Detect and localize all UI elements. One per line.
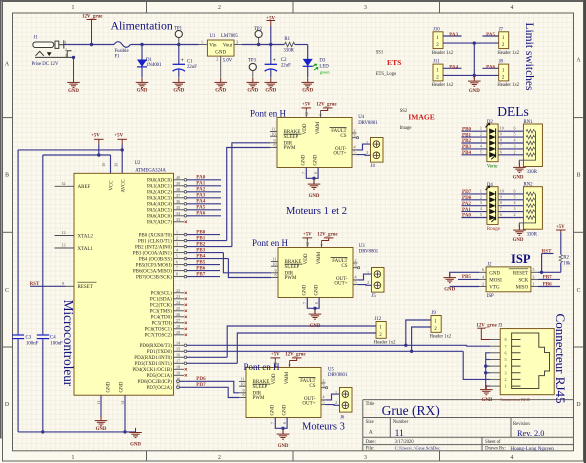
svg-text:5: 5 [532,267,534,272]
svg-text:7: 7 [504,344,506,349]
svg-text:5: 5 [176,254,178,259]
svg-text:11: 11 [395,429,404,439]
svg-text:27: 27 [176,318,180,323]
svg-text:11: 11 [96,401,101,405]
svg-text:26: 26 [176,312,180,317]
svg-text:PB0 (XCK0/T0): PB0 (XCK0/T0) [139,233,173,238]
svg-text:PA4: PA4 [449,65,458,71]
svg-text:GND: GND [130,443,141,448]
svg-text:GND: GND [106,381,111,392]
svg-text:Header 1x2: Header 1x2 [497,51,519,56]
svg-text:22uF: 22uF [187,65,197,70]
svg-text:PB3 (OC0A/AIN1): PB3 (OC0A/AIN1) [133,251,172,256]
svg-text:PC2(TCK): PC2(TCK) [150,304,172,309]
svg-text:RN1: RN1 [524,120,534,125]
svg-text:AREF: AREF [78,185,91,190]
svg-text:green: green [320,70,331,75]
svg-text:J1: J1 [34,36,39,41]
svg-text:D2: D2 [487,120,493,125]
svg-text:PD0(RXD0/T3): PD0(RXD0/T3) [140,344,173,349]
svg-text:PB4: PB4 [462,150,472,156]
svg-text:GND: GND [68,89,79,94]
svg-text:Fusible: Fusible [115,49,129,54]
svg-text:VCC: VCC [110,180,115,191]
svg-text:GND: GND [265,89,276,94]
svg-text:19: 19 [176,370,180,375]
svg-text:3/17/2020: 3/17/2020 [395,440,415,445]
svg-text:10k: 10k [563,261,571,266]
svg-text:C4: C4 [50,335,56,340]
svg-text:2: 2 [482,281,484,286]
svg-text:PD7(OC2A): PD7(OC2A) [147,386,173,391]
svg-text:4: 4 [482,274,484,279]
svg-text:15: 15 [176,346,180,351]
svg-text:8: 8 [504,337,506,342]
svg-text:U2: U2 [135,161,141,166]
svg-text:Microcontroleur: Microcontroleur [61,300,76,387]
svg-text:J11: J11 [433,60,440,65]
svg-text:AVCC: AVCC [121,179,126,193]
svg-text:8: 8 [176,272,178,277]
svg-text:Prise DC 12V: Prise DC 12V [32,62,59,67]
svg-text:PC7(TOSC2): PC7(TOSC2) [145,334,172,339]
svg-text:RESET: RESET [78,285,93,290]
svg-text:J6: J6 [340,416,345,421]
svg-text:J5: J5 [372,294,377,299]
svg-text:GND: GND [302,89,313,94]
svg-text:1: 1 [532,281,534,286]
svg-text:MISO: MISO [516,286,529,291]
svg-text:Pont en H: Pont en H [244,362,281,372]
svg-text:PA3: PA3 [449,32,458,38]
svg-text:35: 35 [176,205,180,210]
svg-text:PB1 (CLKO/T1): PB1 (CLKO/T1) [138,239,172,244]
svg-text:PC6(TOSC1): PC6(TOSC1) [145,328,172,333]
svg-text:Verte: Verte [487,164,498,169]
svg-text:12: 12 [62,230,66,235]
svg-text:1: 1 [176,230,178,235]
svg-text:LM7805: LM7805 [221,34,238,39]
svg-text:RESET: RESET [513,271,528,276]
svg-text:U3: U3 [359,244,365,249]
svg-text:J2: J2 [487,263,492,268]
svg-text:3: 3 [176,242,178,247]
svg-text:GND: GND [215,89,226,94]
svg-text:PD2(RXD1/INT0): PD2(RXD1/INT0) [134,356,172,361]
svg-text:DRV8801: DRV8801 [328,373,348,378]
svg-text:39: 39 [176,181,180,186]
svg-text:PA1(ADC1): PA1(ADC1) [147,185,172,190]
svg-text:LED: LED [319,64,329,69]
svg-text:ATMEGA324A: ATMEGA324A [135,168,166,173]
svg-text:7: 7 [176,266,178,271]
svg-text:PD6(OC2B/ICP): PD6(OC2B/ICP) [138,380,173,385]
svg-text:37: 37 [176,193,180,198]
svg-text:Size: Size [366,420,374,425]
svg-text:DELs: DELs [497,104,529,119]
svg-text:+5V: +5V [91,133,100,138]
svg-text:Pont en H: Pont en H [252,238,289,248]
svg-text:24: 24 [176,300,180,305]
svg-text:U5: U5 [328,367,334,372]
svg-text:PC1(SDA): PC1(SDA) [150,298,172,303]
svg-text:GND: GND [482,398,493,403]
svg-text:Date:: Date: [366,440,376,445]
svg-text:PB7(OC3B/SCK): PB7(OC3B/SCK) [136,275,172,280]
svg-text:22: 22 [176,288,180,293]
svg-text:C2: C2 [281,58,287,63]
svg-text:12V_grue: 12V_grue [82,15,103,20]
svg-text:D: D [576,402,580,408]
svg-text:Title: Title [366,402,375,407]
svg-text:Moteurs 3: Moteurs 3 [302,421,345,432]
svg-text:XTAL1: XTAL1 [78,247,94,252]
svg-text:SS1: SS1 [376,50,384,55]
svg-text:+: + [273,58,276,64]
svg-text:PB6(OC3A/MISO): PB6(OC3A/MISO) [133,269,172,274]
svg-text:Rouge: Rouge [487,227,501,232]
svg-text:J9: J9 [432,311,437,316]
svg-text:TP3: TP3 [248,58,257,63]
svg-text:PB4 (OC0B/SS): PB4 (OC0B/SS) [139,257,172,262]
svg-text:J12: J12 [375,317,382,322]
svg-text:B: B [577,173,581,179]
svg-text:17: 17 [176,358,180,363]
svg-text:Revision: Revision [513,422,530,427]
svg-text:J7: J7 [499,27,504,32]
svg-text:XTAL2: XTAL2 [78,234,94,239]
svg-text:GND: GND [215,51,226,56]
svg-text:+5V: +5V [556,225,565,230]
svg-text:RN2: RN2 [524,183,534,188]
svg-text:Header 1x2: Header 1x2 [432,83,454,88]
svg-text:Header 1x2: Header 1x2 [430,335,452,340]
svg-text:B: B [5,173,9,179]
svg-text:J8: J8 [499,60,504,65]
svg-text:PC5(TDI): PC5(TDI) [152,322,173,327]
svg-text:9: 9 [62,281,64,286]
svg-text:PC3(TMS): PC3(TMS) [150,310,173,315]
svg-text:C: C [577,288,581,294]
svg-text:PA6(ADC6): PA6(ADC6) [147,215,172,220]
svg-text:16: 16 [176,352,180,357]
svg-text:C3: C3 [26,335,32,340]
svg-text:3: 3 [364,5,367,11]
svg-text:Header 1x2: Header 1x2 [497,83,519,88]
svg-text:Moteurs 1 et 2: Moteurs 1 et 2 [286,206,347,217]
svg-text:D3: D3 [319,59,325,64]
svg-text:2: 2 [218,455,221,461]
svg-text:3: 3 [504,370,506,375]
svg-text:Sheet of: Sheet of [485,440,501,445]
svg-text:J3: J3 [498,324,503,329]
svg-text:1N4001: 1N4001 [146,63,162,68]
svg-text:1: 1 [201,39,203,44]
svg-text:100nF: 100nF [26,342,39,347]
svg-text:32: 32 [62,181,66,186]
svg-text:PA5(ADC5): PA5(ADC5) [147,209,172,214]
svg-text:Hoang-Long Nguyen: Hoang-Long Nguyen [510,446,554,452]
svg-text:Connecteur RJ45: Connecteur RJ45 [553,314,568,404]
svg-text:GND: GND [173,89,184,94]
svg-text:4: 4 [511,5,514,11]
svg-text:D: D [5,402,9,408]
svg-text:C:\Users\..\Grue.SchDoc: C:\Users\..\Grue.SchDoc [395,446,441,451]
svg-text:J10: J10 [433,27,440,32]
svg-text:18: 18 [176,364,180,369]
svg-text:GND: GND [469,89,480,94]
svg-text:PD7: PD7 [196,382,206,388]
svg-text:Vin: Vin [209,43,217,48]
svg-text:C: C [5,288,9,294]
svg-text:6: 6 [504,350,506,355]
svg-text:6: 6 [482,267,484,272]
svg-text:330R: 330R [283,49,294,54]
svg-text:PC0(SCL): PC0(SCL) [151,292,172,297]
svg-text:Pont en H: Pont en H [250,109,287,119]
svg-text:Grue (RX): Grue (RX) [382,403,440,418]
svg-text:VTG: VTG [489,286,500,291]
svg-text:PA3(ADC3): PA3(ADC3) [147,197,172,202]
svg-text:PA7(ADC7): PA7(ADC7) [147,221,172,226]
svg-text:5: 5 [504,357,506,362]
svg-text:PA0(ADC0): PA0(ADC0) [147,179,172,184]
svg-text:D4: D4 [487,183,493,188]
svg-text:PA0: PA0 [462,213,471,219]
svg-text:R2: R2 [563,255,569,260]
svg-text:ISP: ISP [487,294,494,299]
svg-text:22uF: 22uF [281,64,291,69]
svg-text:3: 3 [532,274,534,279]
svg-text:C1: C1 [187,60,193,65]
svg-text:DRV8801: DRV8801 [358,121,378,126]
svg-text:R1: R1 [284,37,290,42]
svg-text:1: 1 [72,455,75,461]
svg-text:1: 1 [72,5,75,11]
svg-text:2: 2 [216,57,218,62]
svg-text:PB5(ICP3/MOSI): PB5(ICP3/MOSI) [136,263,172,268]
svg-text:Connecteur RJ45: Connecteur RJ45 [500,397,530,402]
svg-text:3: 3 [65,53,67,58]
svg-text:GND: GND [96,427,107,432]
svg-text:File:: File: [366,447,375,452]
svg-text:3: 3 [236,39,238,44]
svg-text:PC4(TD0): PC4(TD0) [151,316,172,321]
svg-text:PB2 (INT2/AIN0): PB2 (INT2/AIN0) [135,245,172,250]
svg-text:PD4(XCK1/OC1B): PD4(XCK1/OC1B) [132,368,172,373]
svg-text:33: 33 [176,217,180,222]
svg-text:31: 31 [120,400,125,404]
svg-text:4: 4 [511,455,514,461]
svg-text:34: 34 [176,211,180,216]
svg-text:ETS_Logo: ETS_Logo [376,72,397,77]
svg-text:23: 23 [176,294,180,299]
svg-text:10: 10 [101,163,106,167]
svg-text:1: 1 [504,384,506,389]
svg-text:4: 4 [176,248,178,253]
svg-text:40: 40 [176,175,180,180]
svg-text:Limit switches: Limit switches [523,22,535,91]
svg-text:Rev. 2.0: Rev. 2.0 [517,429,544,438]
svg-text:38: 38 [176,187,180,192]
svg-text:PA2(ADC2): PA2(ADC2) [147,191,172,196]
svg-text:PD5(OC1A): PD5(OC1A) [147,374,173,379]
svg-text:6: 6 [176,260,178,265]
svg-text:+: + [181,58,184,64]
svg-text:GND: GND [444,288,455,293]
svg-text:Image: Image [400,126,412,131]
svg-text:29: 29 [176,330,180,335]
svg-text:4: 4 [504,364,506,369]
svg-text:13: 13 [62,243,66,248]
svg-text:GND: GND [119,381,124,392]
svg-text:U4: U4 [358,115,364,120]
svg-text:IMAGE: IMAGE [408,113,435,122]
svg-text:GND: GND [247,89,258,94]
svg-text:14: 14 [176,340,180,345]
svg-text:+5V: +5V [114,133,123,138]
svg-text:5.0V: 5.0V [223,59,233,64]
svg-text:PA4(ADC4): PA4(ADC4) [147,203,172,208]
svg-text:ETS: ETS [387,58,401,67]
svg-text:28: 28 [176,324,180,329]
svg-text:PB7: PB7 [196,272,206,278]
svg-text:2: 2 [65,47,67,52]
svg-text:1: 1 [65,40,67,45]
svg-text:Vout: Vout [223,43,233,48]
svg-text:2: 2 [504,377,506,382]
svg-text:Alimentation: Alimentation [111,19,173,33]
svg-text:2: 2 [218,5,221,11]
svg-text:F1: F1 [115,55,121,60]
svg-text:Header 1x2: Header 1x2 [432,51,454,56]
svg-text:2: 2 [176,236,178,241]
svg-text:U1: U1 [210,34,216,39]
svg-text:3: 3 [364,455,367,461]
svg-text:30: 30 [114,163,119,167]
svg-text:36: 36 [176,199,180,204]
svg-text:PD1(TXD0): PD1(TXD0) [147,350,172,355]
svg-text:MOSI: MOSI [489,278,502,283]
svg-text:PA6: PA6 [486,65,495,71]
svg-text:DRV8801: DRV8801 [359,250,379,255]
svg-text:PD3(TXD1/INT1): PD3(TXD1/INT1) [135,362,173,367]
svg-text:SCK: SCK [518,278,528,283]
svg-text:PA6: PA6 [196,211,205,217]
svg-text:A: A [369,430,373,436]
svg-text:Drawn By:: Drawn By: [485,447,506,452]
svg-text:PA5: PA5 [486,32,495,38]
svg-text:GND: GND [489,271,500,276]
svg-text:Number: Number [393,420,409,425]
svg-text:Header 1x2: Header 1x2 [374,341,396,346]
svg-text:GND: GND [137,89,148,94]
svg-text:25: 25 [176,306,180,311]
svg-text:SS2: SS2 [400,109,408,114]
svg-text:ISP: ISP [511,252,531,266]
svg-text:J4: J4 [371,164,376,169]
